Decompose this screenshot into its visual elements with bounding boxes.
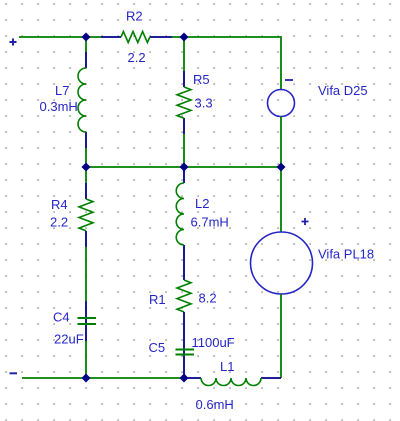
junction bottom center rail	[180, 374, 189, 383]
wire middle horizontal bus	[86, 166, 281, 168]
svg-text:C5: C5	[149, 340, 166, 355]
wire middle rail R5 to mid bus	[183, 134, 185, 167]
svg-text:R2: R2	[126, 9, 143, 24]
wire bottom: - terminal to L1	[22, 377, 184, 379]
svg-text:0.3mH: 0.3mH	[40, 99, 78, 114]
capacitor C4	[78, 318, 97, 324]
capacitor C4 leads	[85, 301, 87, 341]
svg-text:L1: L1	[220, 359, 234, 374]
inductor L1	[201, 378, 261, 386]
svg-text:3.3: 3.3	[195, 96, 213, 111]
junction mid bus right	[277, 163, 286, 172]
inductor L1 leads	[184, 377, 281, 379]
resistor R5 leads	[183, 71, 185, 134]
resistor R2	[121, 32, 150, 43]
wire PL18 bottom to bottom-right corner	[280, 294, 282, 378]
svg-text:22uF: 22uF	[54, 332, 84, 347]
resistor R4	[79, 199, 93, 231]
junction mid bus center	[180, 163, 189, 172]
wire mid bus down to PL18	[280, 167, 282, 232]
capacitor C5 leads	[183, 312, 185, 378]
port - (bottom left terminal)	[10, 372, 18, 374]
wire: R2 right lead to top-right corner, down to D25	[172, 37, 281, 90]
svg-text:1100uF: 1100uF	[192, 335, 235, 350]
resistor R4 leads	[85, 183, 87, 247]
resistor R2 leads	[101, 36, 172, 38]
wire top: + terminal to R2 left lead	[19, 36, 101, 38]
junction bottom left rail	[82, 374, 91, 383]
plus polarity mark for PL18	[302, 218, 309, 225]
wire left rail C4 to bottom	[85, 341, 87, 378]
wire middle rail top segment	[183, 37, 185, 71]
svg-text:0.6mH: 0.6mH	[196, 397, 234, 412]
svg-text:R4: R4	[51, 197, 68, 212]
wire left rail between R4 and C4	[85, 247, 87, 301]
wire left rail between L7 and R4	[85, 148, 87, 183]
svg-text:8.2: 8.2	[199, 290, 217, 305]
inductor L7 leads	[85, 52, 87, 148]
svg-text:R1: R1	[149, 292, 166, 307]
svg-text:6.7mH: 6.7mH	[191, 215, 229, 230]
junction at R2 right / R5 top	[180, 33, 189, 42]
junction mid bus left	[82, 163, 91, 172]
inductor L7	[78, 68, 86, 132]
svg-text:L2: L2	[195, 196, 209, 211]
resistor R5	[177, 87, 191, 118]
wire D25 bottom to mid bus	[280, 117, 282, 168]
svg-text:L7: L7	[55, 83, 69, 98]
svg-text:C4: C4	[53, 310, 70, 325]
resistor R1	[177, 280, 191, 312]
junction at R2 left / L7 top	[82, 33, 91, 42]
inductor L2 leads	[183, 167, 185, 280]
svg-text:2.2: 2.2	[50, 215, 68, 230]
svg-text:Vifa D25: Vifa D25	[318, 83, 368, 98]
minus polarity mark for D25	[285, 79, 293, 81]
speaker SP1 Vifa D25 (tweeter)	[268, 90, 295, 117]
inductor L2	[176, 183, 184, 245]
port + (top left terminal)	[10, 39, 17, 46]
speaker SP2 Vifa PL18 (woofer)	[251, 232, 313, 294]
capacitor C5	[176, 350, 195, 355]
svg-text:Vifa PL18: Vifa PL18	[318, 246, 374, 261]
wire left rail top segment	[85, 37, 87, 52]
svg-text:R5: R5	[193, 72, 210, 87]
svg-text:2.2: 2.2	[128, 50, 146, 65]
